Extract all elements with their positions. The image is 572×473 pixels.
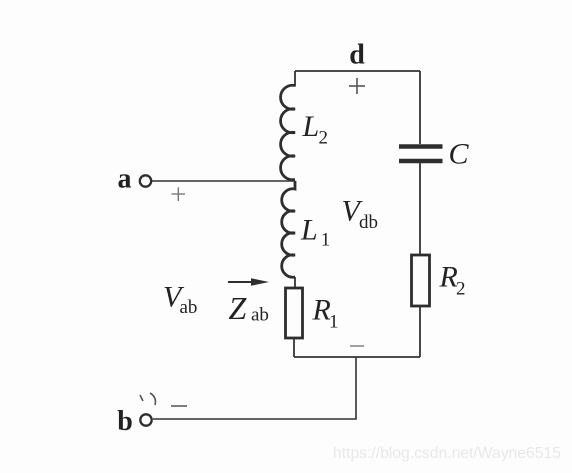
svg-text:L: L — [302, 110, 320, 143]
svg-text:L: L — [300, 214, 318, 247]
svg-text:C: C — [449, 138, 470, 171]
stray mark arc above b — [150, 393, 155, 405]
wire bottom horizontal — [294, 356, 420, 358]
wire right branch top stub — [419, 71, 421, 144]
minus sign near b — [171, 405, 187, 407]
svg-text:R: R — [439, 261, 458, 294]
capacitor C — [399, 147, 443, 162]
svg-text:R: R — [312, 294, 331, 327]
wire R2 to bottom — [419, 306, 421, 357]
wire capacitor to R2 — [419, 163, 421, 255]
wire junction down from bottom wire — [153, 357, 356, 419]
arrow Zab — [228, 278, 269, 285]
svg-text:db: db — [359, 212, 378, 233]
terminal b circle — [140, 414, 151, 425]
plus sign near a — [172, 187, 186, 201]
svg-text:ab: ab — [251, 305, 269, 326]
plus sign at node d — [349, 78, 365, 94]
minus sign near bottom wire — [350, 345, 364, 347]
inductor L2 — [281, 85, 295, 180]
wire top horizontal d-node — [295, 70, 420, 72]
svg-text:a: a — [118, 164, 132, 195]
resistor R1 — [286, 288, 303, 338]
svg-text:2: 2 — [456, 279, 466, 300]
resistor R2 — [412, 255, 430, 306]
svg-text:1: 1 — [321, 230, 331, 251]
inductor L1 — [282, 181, 295, 277]
terminal a circle — [140, 175, 151, 186]
svg-text:https://blog.csdn.net/Wayne651: https://blog.csdn.net/Wayne6515 — [333, 445, 561, 462]
wire left branch top stub — [294, 71, 296, 87]
svg-text:2: 2 — [319, 128, 329, 149]
wire from a to left branch — [152, 180, 295, 182]
svg-text:d: d — [349, 40, 365, 71]
svg-text:Z: Z — [229, 290, 248, 326]
wire R1 to bottom — [293, 338, 295, 357]
wire L1 to R1 — [294, 277, 296, 288]
svg-text:b: b — [117, 406, 133, 437]
stray mark apostrophe above b — [140, 395, 143, 401]
svg-text:ab: ab — [180, 297, 198, 318]
svg-text:1: 1 — [329, 312, 339, 333]
